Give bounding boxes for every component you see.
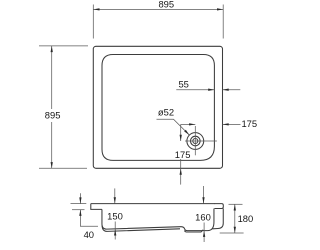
dimension 180: dimension line [234, 204, 236, 233]
dimension 40: lower arrow and leader [80, 210, 98, 227]
label ø52: leader line [157, 119, 190, 135]
side view: right rim lip [215, 204, 224, 209]
svg-text:160: 160 [195, 212, 211, 223]
side view: foot pad under sump [184, 230, 203, 232]
drain outer circle [187, 133, 204, 150]
dimension 40: upper arrow [79, 193, 81, 203]
svg-text:150: 150 [107, 210, 123, 221]
drain inner circle [193, 139, 198, 144]
svg-text:175: 175 [241, 118, 257, 129]
dimension 160: lower arrow [203, 223, 205, 243]
dimension 175 bottom: dimension lines with arrows [180, 124, 182, 141]
dimension 895 left: dimension line [51, 46, 53, 109]
side view: outer bottom left [102, 226, 180, 232]
svg-text:895: 895 [158, 0, 174, 9]
drain vertical centerline [194, 126, 196, 155]
drain horizontal centerline [185, 140, 217, 142]
dimension 175 right: dimension lines with arrows [181, 123, 196, 125]
dimension 895 left: extension lines [39, 45, 88, 47]
svg-text:175: 175 [175, 149, 191, 160]
dimension 150: lower arrow [114, 222, 116, 240]
side view: left rim lip [91, 204, 102, 210]
svg-text:ø52: ø52 [158, 107, 174, 118]
drain middle circle [191, 136, 201, 146]
svg-text:895: 895 [45, 110, 61, 121]
tray inner rim edge (plan view) [102, 55, 214, 161]
side view: rim top line [91, 203, 215, 205]
dimension 160: upper arrow [203, 186, 205, 204]
svg-text:180: 180 [238, 213, 254, 224]
dimension 55: dimension lines with arrows [176, 89, 214, 91]
side view: left wall and inner bottom into sump and right wall [102, 209, 214, 231]
dimension 40: extension lines [71, 203, 87, 205]
side view: right outer wall and outer bottom [213, 209, 224, 229]
svg-text:55: 55 [178, 79, 188, 90]
dimension 895 top: extension lines [92, 5, 94, 39]
tray outer edge (plan view) [93, 46, 222, 168]
dimension 180: extension lines [229, 203, 243, 205]
dimension 150: upper arrow [114, 188, 116, 203]
svg-text:40: 40 [84, 229, 94, 240]
dimension 895 top: dimension line [93, 8, 223, 10]
